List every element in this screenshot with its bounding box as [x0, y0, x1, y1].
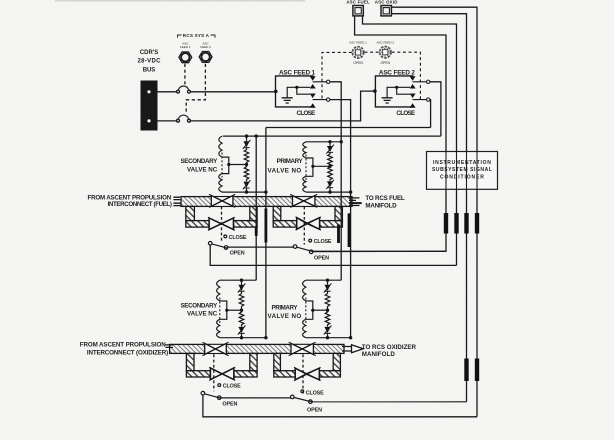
coil — [303, 142, 313, 192]
fuel bypass pipe mid segment — [234, 221, 258, 228]
fuel left stub — [186, 206, 195, 220]
fuel main pipe — [181, 197, 352, 207]
diode D1 — [243, 141, 249, 147]
wire: secondary-valve bottom link (y127.5) — [266, 127, 431, 129]
resistor R8 — [325, 310, 330, 326]
oxidizer bypass pipe mid segment — [234, 371, 257, 377]
wire: fuel switch link y247 — [228, 246, 294, 248]
indicator square S2 wire b (to x466.5) — [391, 14, 466, 402]
dashed link: talkback 1 to talkback 2 — [365, 51, 379, 53]
wire: bus to ASC FEED 1 input — [158, 91, 276, 93]
fuel pipe outlet staggered end lines — [349, 198, 360, 206]
diode D3 — [327, 146, 333, 152]
indicator square S1 wire b (to x456.5) — [363, 16, 457, 266]
wire: oxidizer switch rail y416.8 — [203, 395, 477, 417]
coil — [303, 280, 313, 338]
circuit breaker CB1 (ASC FEED 1) — [179, 52, 192, 63]
oxidizer bypass pipe 2 right segment — [319, 371, 340, 377]
dashed link: talkback 1 to ASC FEED 1 switch — [322, 52, 352, 100]
dashed stem: oxidizer main valve 1 to position switch — [213, 354, 215, 391]
oxidizer main valve 1 (secondary) — [202, 342, 228, 355]
switch contacts (triangles) ASC FEED 2 — [410, 76, 416, 107]
ASC FEED 2 switch box — [375, 76, 430, 108]
pole commons ASC FEED 1 — [313, 82, 327, 100]
oxidizer bypass pipe left segment — [186, 371, 210, 377]
resistor R7 — [325, 291, 330, 310]
oxidizer valve position switch 1 — [201, 384, 221, 400]
dashed link: breaker CB1 to contact arc 1 — [184, 64, 186, 85]
fuel valve position switch 2 — [293, 239, 313, 253]
fuel bypass pipe left segment — [186, 221, 209, 228]
circuit breaker contact arc 2 — [178, 115, 188, 119]
wire: bus to ASC FEED 2 input — [158, 91, 375, 121]
diode D8 — [324, 327, 330, 333]
fuel right stub 1 — [250, 206, 257, 220]
switch contacts (triangles) ASC FEED 1 — [310, 76, 316, 107]
wire: ASC FEED 2 bottom contact riser x430.6 — [429, 100, 432, 128]
oxidizer valve position switch 2 — [291, 390, 313, 404]
dashed link: talkback 2 to ASC FEED 2 switch — [392, 52, 421, 100]
circuit breaker CB2 (ASC FEED 2) — [199, 52, 212, 63]
oxidizer main valve 2 (primary) — [289, 342, 316, 355]
scan artifact top streak — [55, 0, 305, 2]
wire: ASC FEED 1 top contact to primary valves (vertical x341.2) — [330, 82, 341, 280]
oxidizer bypass valve 2 (manual) — [294, 367, 321, 380]
dashed stem: fuel main valve 1 to position switch — [221, 207, 223, 242]
oxidizer main pipe — [170, 344, 344, 353]
fuel bypass valve 1 (manual) — [208, 217, 235, 230]
fuel bypass valve 2 (manual) — [296, 217, 321, 230]
pole commons ASC FEED 2 — [413, 82, 427, 100]
dashed stem: oxidizer main valve 2 to position switch — [302, 354, 304, 394]
bold cable segment w3 (x341.2 jog) — [337, 225, 340, 244]
ground symbol (ASC FEED 1) — [282, 98, 293, 103]
instrumentation box — [427, 152, 498, 190]
indicator square S1 wire a (to x446) — [312, 16, 446, 251]
wire: secondary bottom rail drop x265.9 to oxidizer — [265, 128, 267, 338]
bottom rail — [306, 191, 351, 193]
resistor R3 — [328, 152, 333, 166]
ground symbol (ASC FEED 2) — [382, 98, 393, 103]
bold cable segments right side lower — [467, 359, 478, 382]
indicator square S2 wire a (to x477) — [391, 7, 477, 417]
bold cable segment w1 (x256.2) — [255, 226, 258, 236]
fuel primary valve solenoid circuit — [303, 142, 351, 192]
wire: ASC FEED 1 bottom contact to primary valves (vertical x350.6) — [330, 100, 351, 338]
dashed stem: fuel main valve 2 to position switch — [303, 207, 305, 245]
fuel pipe inlet marks — [173, 197, 181, 205]
oxidizer secondary valve solenoid circuit — [217, 280, 266, 338]
resistor R4 — [328, 166, 333, 181]
resistor R5 — [239, 291, 244, 310]
wire: ASC FEED 2 top contact riser x440.9 — [430, 82, 441, 136]
wire: oxidizer right switch contact to x466.5 (y401.8) — [312, 401, 466, 403]
fuel bypass pipe 2 right segment — [320, 221, 343, 228]
wire: secondary-valve top rail bus (y136.1) — [223, 135, 441, 137]
talkback indicator ASC FEED 2 — [380, 47, 391, 58]
label RCS SYS A bracket — [178, 35, 216, 38]
coil — [219, 136, 229, 192]
resistor R6 — [239, 310, 244, 326]
oxidizer assembly2 left stub — [274, 353, 281, 370]
coil — [217, 280, 227, 338]
oxidizer pipe outlet arrow — [342, 345, 363, 353]
diode D2 — [243, 182, 249, 188]
dashed link: breaker CB2 to contact arc 2 — [186, 64, 205, 115]
resistor R1 — [244, 148, 249, 165]
oxidizer right stub 2 — [333, 353, 340, 370]
fuel bypass pipe 2 left segment — [273, 221, 297, 228]
oxidizer primary valve solenoid circuit — [303, 280, 351, 338]
fuel valve position switch 1 — [208, 235, 228, 249]
fuel assembly2 left stub — [273, 206, 281, 220]
bottom rail — [306, 337, 351, 339]
wire: oxidizer switch link y397.3 — [221, 397, 291, 399]
resistor R2 — [244, 165, 249, 182]
bold cable segment w2 (x265.9) — [264, 209, 267, 243]
oxidizer pipe inlet marks — [166, 345, 174, 348]
indicator square S1 (ASC FUEL) — [353, 6, 363, 16]
talkback indicator ASC FEED 1 — [352, 47, 363, 58]
diode D5 — [238, 285, 244, 291]
CDR 28VDC bus bar — [141, 81, 158, 131]
junction dots — [225, 86, 398, 340]
bottom rail — [220, 337, 266, 339]
oxidizer bypass pipe 2 left segment — [274, 371, 295, 377]
oxidizer left stub — [186, 353, 194, 370]
bottom rail — [222, 191, 266, 193]
oxidizer bypass valve 1 (manual) — [209, 367, 235, 380]
fuel secondary valve solenoid circuit — [219, 136, 266, 192]
wire: fuel secondary top rail drop x256.2 to oxidizer — [255, 136, 257, 280]
bold cable segments below instrumentation box — [446, 213, 477, 234]
bold cable segment w4 (x350.6 jog) — [348, 213, 351, 247]
diode D4 — [327, 181, 333, 187]
fuel main valve 2 (primary) — [290, 194, 317, 207]
ASC FEED 1 switch box — [276, 76, 330, 108]
instr box internal wires — [446, 152, 477, 190]
circuit breaker contact arc 1 — [178, 86, 188, 90]
wire: fuel switch rail y265.4 — [210, 245, 456, 265]
oxidizer right stub 1 — [250, 353, 257, 370]
fuel main valve 1 (secondary) — [209, 194, 235, 207]
fuel right stub 2 — [335, 206, 342, 220]
indicator square S2 (ASC OXID) — [381, 6, 391, 16]
wire: fuel right switch contact to x446 (y251.3) — [313, 250, 446, 252]
diode D7 — [324, 285, 330, 291]
diode D6 — [238, 327, 244, 333]
